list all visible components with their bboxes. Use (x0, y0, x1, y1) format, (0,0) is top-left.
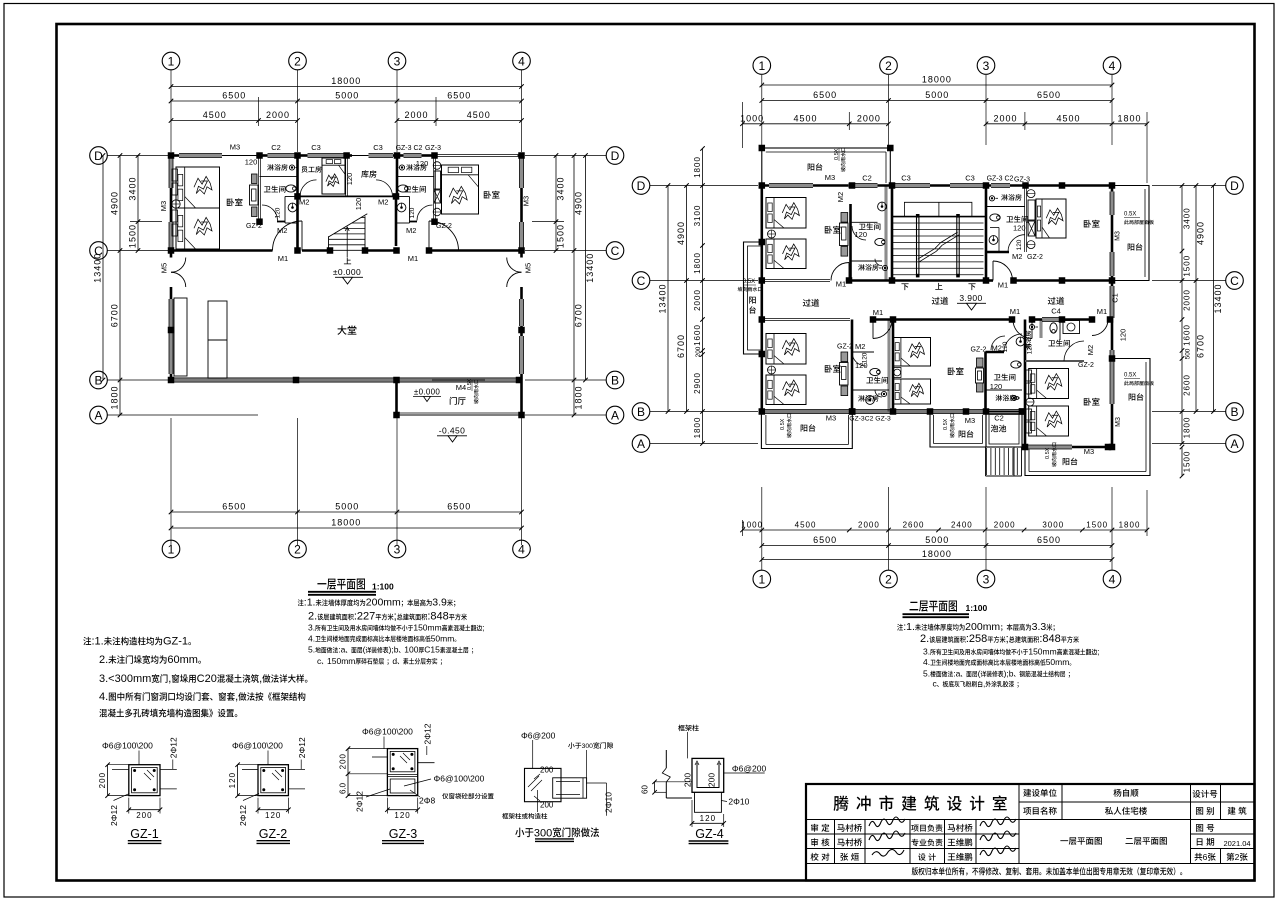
svg-text:1: 1 (758, 59, 765, 73)
svg-text:Φ6@200: Φ6@200 (521, 730, 556, 740)
svg-text:GZ-2: GZ-2 (971, 347, 987, 354)
floor2 pool (986, 412, 1022, 448)
svg-text:2Φ12: 2Φ12 (297, 737, 307, 758)
floor1 room label shower left (267, 164, 287, 171)
svg-text:3.900: 3.900 (959, 293, 982, 303)
svg-text:M2: M2 (406, 226, 416, 235)
detail GZ-1 bottom dim 200 (129, 809, 160, 811)
floor1 door M1 right apartment (429, 221, 459, 251)
svg-text:Φ6@100\200: Φ6@100\200 (362, 727, 413, 737)
svg-text:0.5X: 0.5X (743, 279, 755, 285)
svg-text:4: 4 (518, 54, 525, 68)
svg-text:d: d (392, 656, 397, 666)
floor2 notes (897, 624, 903, 631)
floor1 right wardrobe strip (433, 162, 441, 170)
floor1 grid bubbles top (162, 52, 180, 70)
detail GZ-3 bottom dim 120 (387, 809, 417, 811)
floor1 door M5 left double (171, 258, 186, 273)
floor2 bottom middle balcony (930, 412, 986, 448)
svg-text:C2: C2 (271, 143, 281, 152)
svg-text:GZ-4: GZ-4 (695, 827, 724, 841)
floor2 grid bubbles top (753, 57, 771, 75)
floor2 columns (759, 182, 766, 189)
svg-text:2Φ12: 2Φ12 (169, 737, 179, 758)
svg-text:6700: 6700 (110, 303, 120, 327)
floor2 title (910, 600, 957, 611)
floor2 right balcony upper (1112, 186, 1149, 281)
svg-text:120: 120 (700, 814, 716, 823)
svg-text:4900: 4900 (574, 191, 584, 215)
svg-text:5000: 5000 (335, 502, 359, 512)
svg-text:3000: 3000 (1042, 521, 1064, 530)
svg-text:C: C (611, 244, 620, 258)
svg-text:2: 2 (885, 572, 892, 586)
floor2 bottom balcony left (761, 412, 852, 449)
svg-text:3400: 3400 (128, 177, 138, 201)
floor1 bottom dims (170, 418, 172, 545)
floor2 top-right wardrobe strip (1027, 190, 1035, 198)
floor2 right grid bubbles (1226, 177, 1244, 195)
detail GZ-2 left dim 120 (237, 765, 239, 796)
svg-text:120: 120 (394, 811, 410, 820)
svg-text:1600: 1600 (693, 324, 702, 346)
svg-text:120: 120 (1119, 329, 1128, 342)
svg-text:C3: C3 (373, 143, 383, 152)
svg-text:4500: 4500 (794, 113, 818, 123)
svg-text:,: , (168, 673, 171, 685)
svg-text::848: :848 (1039, 633, 1060, 645)
svg-text:6: 6 (1203, 852, 1208, 862)
svg-text:GZ-1: GZ-1 (130, 827, 159, 841)
svg-text:3100: 3100 (693, 205, 702, 227)
svg-text:120: 120 (855, 361, 868, 370)
svg-text:120: 120 (416, 159, 429, 168)
title block company name (834, 796, 849, 811)
svg-text:C1: C1 (1111, 293, 1120, 303)
floor2 room labels bottom-left apt (825, 365, 841, 373)
svg-text:1600: 1600 (1183, 324, 1192, 346)
svg-text:;: ; (394, 611, 397, 623)
svg-text:4900: 4900 (676, 221, 686, 245)
svg-text:C15: C15 (424, 645, 440, 655)
svg-text:150mm: 150mm (1028, 647, 1056, 657)
svg-text:2000: 2000 (994, 521, 1016, 530)
floor1 exterior left wall with M5 opening (170, 156, 173, 258)
svg-text:18000: 18000 (331, 518, 361, 528)
svg-text:120: 120 (1013, 224, 1026, 233)
svg-text:3.: 3. (308, 623, 315, 633)
svg-text:Φ6@100\200: Φ6@100\200 (232, 741, 283, 751)
floor1 top dimension 18000 (171, 86, 522, 88)
svg-text:M3: M3 (1115, 417, 1122, 427)
floor2 bottom-left apt bath walls (851, 320, 854, 412)
svg-text:A: A (95, 408, 103, 422)
svg-text:2: 2 (1235, 852, 1240, 862)
svg-text:GZ-2: GZ-2 (1027, 254, 1043, 261)
svg-text:4: 4 (1109, 572, 1116, 586)
svg-text:C2: C2 (862, 174, 872, 183)
svg-text:1:100: 1:100 (372, 582, 394, 592)
svg-text::1.: :1. (304, 597, 316, 609)
svg-text:GZ-3 C2: GZ-3 C2 (987, 176, 1014, 183)
svg-text:2Φ10: 2Φ10 (728, 797, 749, 807)
floor1 stair direction line (346, 227, 348, 257)
svg-text:D: D (1230, 179, 1239, 193)
svg-text:±0.000: ±0.000 (414, 388, 440, 397)
floor2 exterior top wall (762, 184, 1112, 187)
svg-text:2000: 2000 (404, 110, 428, 120)
floor2 left dims inner col (702, 149, 704, 444)
svg-text:3.9: 3.9 (432, 597, 447, 609)
svg-text:3: 3 (983, 59, 990, 73)
floor2 top dimension small row (743, 123, 889, 125)
svg-text:200mm: 200mm (965, 621, 1000, 633)
svg-text::258: :258 (966, 633, 987, 645)
svg-text:120: 120 (275, 207, 282, 218)
floor2 left wall (760, 186, 763, 412)
floor2 stairwell landing (904, 202, 972, 216)
svg-text:M3: M3 (159, 201, 168, 211)
svg-text:120: 120 (855, 230, 868, 239)
floor2 bottom-mid beds (894, 338, 931, 367)
svg-text:±0.000: ±0.000 (333, 267, 361, 277)
svg-text:120: 120 (345, 173, 354, 186)
floor1 lobby furniture (174, 298, 187, 376)
detail GZ-2 wall stubs (242, 768, 258, 770)
svg-text:13400: 13400 (585, 253, 595, 283)
svg-text:0.5X: 0.5X (780, 418, 786, 430)
detail GZ-4 section (665, 750, 667, 768)
floor1 room label lobby (337, 326, 356, 335)
detail GZ-1 rebar label bottom-left (109, 805, 119, 826)
svg-text:M1: M1 (408, 254, 418, 263)
floor1 interior center walls (345, 156, 347, 197)
floor2 stairwell walls (891, 186, 894, 281)
floor1 room label storage (361, 170, 376, 177)
floor2 stair labels (901, 283, 908, 290)
svg-text:M1: M1 (1010, 307, 1020, 316)
detail GZ-1 rebar label top-right (169, 737, 179, 758)
detail GZ-4 frame column label (678, 725, 699, 732)
svg-text:(: ( (363, 645, 366, 655)
svg-text:4500: 4500 (795, 521, 817, 530)
svg-text:C3: C3 (311, 143, 321, 152)
svg-text:2000: 2000 (266, 110, 290, 120)
svg-text:1800: 1800 (1117, 113, 1141, 123)
svg-text:300: 300 (534, 827, 552, 839)
svg-text:6500: 6500 (1037, 535, 1061, 545)
svg-text:2: 2 (294, 542, 301, 556)
svg-text::a: :a (953, 669, 960, 679)
floor2 bottom dims small row (743, 529, 1148, 531)
svg-text:1: 1 (168, 54, 175, 68)
svg-text:C: C (637, 274, 646, 288)
svg-text:6500: 6500 (1037, 90, 1061, 100)
title block reviewer rows (811, 824, 818, 832)
floor2 room labels bottom-middle apt (948, 367, 964, 375)
floor1 room label employee (301, 166, 321, 173)
svg-text:120: 120 (990, 382, 1003, 391)
svg-text:GZ-3 C2: GZ-3 C2 (396, 145, 423, 152)
svg-text:1500: 1500 (1086, 521, 1108, 530)
floor1 notes right of title (298, 599, 304, 606)
floor2 top balcony label (808, 163, 823, 170)
svg-text:200: 200 (695, 346, 702, 357)
floor1 door M1 left apartment (273, 221, 303, 251)
svg-text:120: 120 (265, 811, 281, 820)
title block signatures (869, 817, 905, 827)
floor2 right dims mid col (1195, 186, 1197, 412)
svg-text:2000: 2000 (1183, 289, 1192, 311)
floor2 exterior stair hatch (985, 447, 987, 476)
floor2 stair break line (919, 251, 936, 261)
svg-text::a: :a (338, 645, 345, 655)
svg-text:2600: 2600 (1183, 374, 1192, 396)
floor2 right wall (1111, 186, 1114, 448)
svg-text:M5: M5 (524, 263, 533, 273)
svg-text:M2: M2 (1012, 252, 1022, 261)
floor1 interior wall bedroom/bath left (258, 156, 260, 222)
floor1 employee room bed (322, 158, 345, 194)
floor1 right bedroom bed (442, 165, 479, 214)
svg-text:200: 200 (707, 773, 717, 787)
svg-text:5.: 5. (923, 669, 930, 679)
detail GZ-3 rebar right top (423, 723, 433, 744)
svg-text:2.: 2. (920, 633, 929, 645)
floor2 top-left bath fixtures (878, 202, 887, 211)
svg-text:-0.450: -0.450 (439, 426, 466, 436)
detail door-gap rebar 2d10 (604, 792, 614, 813)
svg-text:C20: C20 (197, 673, 217, 685)
svg-text:A: A (611, 408, 619, 422)
floor2 top-right fixtures (989, 196, 994, 201)
svg-text:GZ-2: GZ-2 (1078, 362, 1094, 369)
floor2 interior walls top-right apt (986, 206, 1025, 208)
floor2 top dimension 6500 5000 6500 (762, 100, 1112, 102)
svg-text:M1: M1 (836, 280, 846, 289)
svg-text:3.: 3. (923, 647, 930, 657)
floor2 bottom-left bath fixtures (870, 368, 880, 375)
floor1 lobby bottom wall grid B (171, 378, 522, 382)
svg-text:M2: M2 (378, 198, 388, 207)
svg-text:1800: 1800 (693, 252, 702, 274)
floor1 right dim 13400 (585, 156, 587, 381)
svg-text:18000: 18000 (922, 549, 952, 559)
svg-text:1800: 1800 (693, 417, 702, 439)
svg-text:200: 200 (540, 801, 554, 810)
floor2 top dimension 18000 (762, 84, 1112, 86)
svg-text:5000: 5000 (925, 535, 949, 545)
floor1 room label bedroom left (227, 198, 243, 206)
detail GZ-4 lower extension (695, 792, 722, 812)
svg-text:4: 4 (518, 542, 525, 556)
detail GZ-1 wall stubs (112, 768, 129, 770)
floor1 windows top wall: M3 C2 C3 C3 C2 (179, 154, 222, 158)
svg-text:200: 200 (136, 811, 152, 820)
detail door-gap section (525, 768, 562, 801)
svg-text:Φ6@100\200: Φ6@100\200 (434, 774, 485, 784)
svg-text:4: 4 (1109, 59, 1116, 73)
svg-text:4500: 4500 (1056, 113, 1080, 123)
detail GZ-3 left dims 200 60 (347, 749, 349, 774)
svg-text:6500: 6500 (813, 535, 837, 545)
svg-text:200: 200 (98, 772, 107, 788)
svg-text:M1: M1 (1097, 307, 1107, 316)
svg-text:2000: 2000 (858, 521, 880, 530)
floor2 left dim 13400 (667, 186, 669, 412)
floor1 stair up label (344, 257, 351, 264)
floor1 door M4 entrance (432, 379, 485, 381)
floor1 door M2 bath left (262, 205, 278, 221)
svg-text:120: 120 (1016, 239, 1023, 250)
svg-text:50mm: 50mm (431, 633, 455, 643)
floor2 stair rails (916, 216, 918, 276)
svg-text:2Φ12: 2Φ12 (355, 791, 365, 812)
floor2 room labels top-right apt (1001, 194, 1021, 201)
svg-text:0.5X: 0.5X (1124, 212, 1136, 218)
svg-text:M3: M3 (965, 416, 975, 425)
svg-text:6500: 6500 (813, 90, 837, 100)
detail GZ-3 section (387, 749, 417, 796)
detail GZ-1 left dim 200 (107, 765, 109, 796)
svg-text:2600: 2600 (903, 521, 925, 530)
detail GZ-4 dims (683, 773, 693, 787)
svg-text:13400: 13400 (93, 253, 103, 283)
svg-text:100: 100 (404, 645, 418, 655)
svg-text:200: 200 (339, 753, 348, 769)
floor1 left dims 3400 1500 (137, 156, 139, 251)
svg-text:150mm: 150mm (327, 656, 355, 666)
svg-text:GZ-3C2 GZ-3: GZ-3C2 GZ-3 (849, 416, 891, 423)
svg-text:M1: M1 (278, 254, 288, 263)
svg-text:(: ( (978, 669, 981, 679)
svg-text:6500: 6500 (222, 502, 246, 512)
floor1 title (317, 579, 365, 590)
svg-text:1500: 1500 (128, 224, 138, 248)
floor1 exterior top wall grid D (171, 154, 180, 157)
svg-text:;: ; (1097, 647, 1099, 657)
floor1 wall grid C (171, 249, 273, 252)
svg-text:1000: 1000 (741, 521, 763, 530)
floor1 right grid bubbles D C B A (606, 147, 624, 165)
svg-text:Φ6@100\200: Φ6@100\200 (102, 741, 153, 751)
svg-text:3400: 3400 (1183, 207, 1192, 229)
floor2 bottom dim 18000 (762, 559, 1112, 561)
floor2 top-right bed (1036, 199, 1066, 238)
detail GZ-2 rebar label bottom-left (238, 805, 248, 826)
floor1 window left wall lobby (169, 299, 173, 374)
svg-text:M3: M3 (522, 196, 531, 206)
svg-text:,: , (235, 691, 238, 703)
svg-text:2.: 2. (308, 611, 317, 623)
svg-text:M2: M2 (836, 192, 845, 202)
svg-text:M4: M4 (456, 383, 466, 392)
floor1 columns (168, 152, 175, 159)
detail GZ-3 rebar bottom-left (355, 791, 365, 812)
svg-text:4500: 4500 (467, 110, 491, 120)
svg-text:B: B (611, 373, 619, 387)
svg-text:6.0: 6.0 (339, 782, 348, 794)
detail door-gap caption (515, 828, 533, 838)
floor1 room label bathroom right (404, 186, 426, 193)
title block grid lines (1018, 784, 1020, 864)
svg-text:1800: 1800 (1119, 521, 1141, 530)
floor2 bottom-left beds (766, 334, 806, 365)
floor1 door storage room (376, 180, 393, 197)
floor1 right dims 4900 6700 1800 (573, 156, 575, 416)
svg-text:4900: 4900 (1196, 221, 1206, 245)
svg-text:Φ6@200: Φ6@200 (732, 764, 767, 774)
svg-text:4500: 4500 (203, 110, 227, 120)
svg-text:,: , (259, 673, 262, 685)
svg-text:1500: 1500 (1183, 451, 1192, 473)
svg-text:2000: 2000 (993, 113, 1017, 123)
floor2 bottom-right apt bath walls (1025, 360, 1084, 362)
svg-text:D: D (637, 179, 646, 193)
svg-text:13400: 13400 (658, 283, 668, 313)
svg-text:2: 2 (294, 54, 301, 68)
svg-text:A: A (637, 437, 645, 451)
floor2 bottom-right room extension walls (1024, 320, 1027, 448)
floor1 door M5 right double (507, 258, 522, 273)
floor1 stair diagonal (328, 214, 367, 237)
svg-text::227: :227 (354, 611, 375, 623)
svg-text:M2: M2 (299, 198, 309, 207)
svg-text:GZ-1: GZ-1 (163, 636, 188, 648)
floor2 side labels (1111, 293, 1120, 303)
floor1 bath fixtures left (289, 165, 294, 170)
svg-text:GZ-3: GZ-3 (425, 145, 441, 152)
svg-text:120: 120 (409, 207, 416, 218)
svg-text:M3: M3 (230, 143, 240, 152)
svg-text:60: 60 (641, 785, 650, 794)
floor2 bottom-mid bath fixtures (1016, 337, 1025, 346)
svg-text:GZ-3: GZ-3 (389, 827, 418, 841)
floor2 bottom-mid wardrobe (977, 358, 984, 367)
svg-text:4.: 4. (923, 657, 930, 667)
svg-text:6500: 6500 (447, 91, 471, 101)
floor2 top-left beds (766, 198, 806, 229)
svg-text:6500: 6500 (447, 502, 471, 512)
svg-text:1500: 1500 (556, 224, 566, 248)
detail GZ-2 section (258, 765, 288, 796)
svg-text:M2: M2 (855, 342, 865, 351)
floor2 interior walls top-left apt bath (849, 204, 852, 281)
floor1 exterior right wall with M5 opening (520, 156, 523, 258)
floor1 entrance porch walls (395, 380, 398, 415)
floor2 bottom balcony labels (780, 418, 786, 430)
svg-text:M3: M3 (1115, 231, 1122, 241)
svg-text:GZ-3: GZ-3 (1014, 177, 1030, 184)
svg-text:C: C (1230, 274, 1239, 288)
svg-text:18000: 18000 (331, 76, 361, 86)
svg-text:200mm: 200mm (366, 597, 401, 609)
svg-text:120: 120 (354, 198, 363, 211)
floor2 room labels bottom-right apt (1084, 398, 1100, 406)
svg-text:GZ-2: GZ-2 (246, 223, 262, 230)
floor1 left wardrobe (252, 174, 258, 184)
svg-text:1: 1 (168, 542, 175, 556)
svg-text::1.: :1. (903, 621, 915, 633)
svg-text:GZ-2: GZ-2 (436, 223, 452, 230)
svg-text:2000: 2000 (693, 289, 702, 311)
svg-text:3400: 3400 (556, 177, 566, 201)
svg-text:2.: 2. (99, 654, 108, 666)
svg-text:1:100: 1:100 (966, 603, 988, 613)
floor2 door arcs (831, 263, 849, 281)
floor2 left grid bubbles (632, 177, 650, 195)
svg-text:120: 120 (228, 772, 237, 788)
